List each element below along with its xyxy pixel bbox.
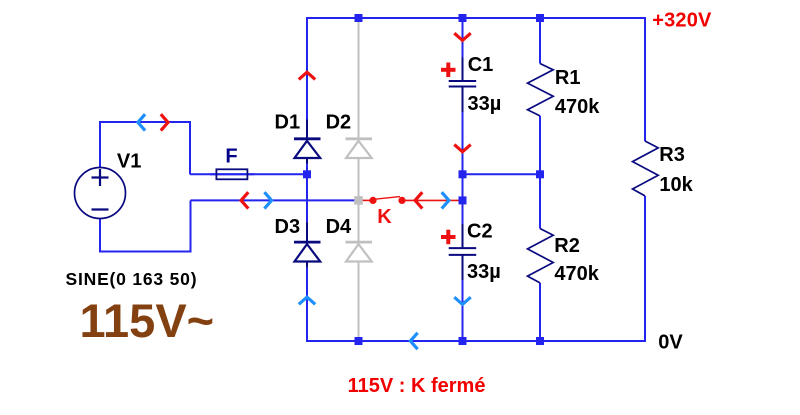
svg-text:K: K — [377, 206, 392, 228]
wire C1 top lead — [462, 17, 464, 58]
svg-text:115V : K fermé: 115V : K fermé — [348, 375, 486, 397]
current arrow red left on neutral wire — [241, 192, 248, 208]
wire bottom rail 0V — [307, 340, 645, 342]
resistor R3 — [633, 141, 659, 196]
current arrow blue right on neutral wire — [264, 192, 271, 208]
resistor R1 — [528, 64, 554, 116]
wire top rail +320V — [307, 17, 645, 19]
svg-text:470k: 470k — [554, 263, 599, 285]
node D4 bottom on rail — [355, 337, 363, 345]
fuse F — [210, 169, 254, 179]
svg-text:D4: D4 — [326, 216, 352, 238]
node D2 top on rail — [355, 14, 363, 22]
current arrow red down on C1 top lead — [454, 33, 470, 40]
current arrow blue left on V1 top wire — [138, 114, 145, 130]
wire left drop to fuse row — [189, 121, 191, 174]
wire R1 top lead — [539, 17, 541, 64]
svg-text:D1: D1 — [275, 112, 301, 134]
node junction fuse/D1/D3 — [303, 170, 311, 178]
wire fuse row to bridge node — [190, 173, 307, 175]
capacitor C2 top stub — [462, 224, 464, 248]
switch K red wire left — [362, 199, 370, 201]
current arrow blue up on D3 branch — [299, 297, 315, 304]
wire midpoint link C to R — [463, 173, 541, 175]
current arrow red up on D1 branch — [299, 72, 315, 79]
wire C1-C2 middle column — [462, 112, 464, 224]
wire D1 branch upper — [306, 17, 308, 120]
diode D3 cathode stub — [306, 262, 308, 268]
svg-text:D3: D3 — [275, 216, 301, 238]
wire neutral row to switch — [191, 199, 356, 201]
node R midpoint — [536, 170, 544, 178]
C2 polarity plus — [441, 230, 456, 245]
diode D1 anode stub — [306, 120, 308, 139]
diode D3 anode stub — [306, 222, 308, 242]
switch K red wire right — [405, 199, 459, 201]
switch K blade — [374, 197, 400, 200]
svg-text:R3: R3 — [659, 144, 685, 166]
node D2/D4 junction gray — [354, 196, 363, 205]
svg-text:SINE(0 163 50): SINE(0 163 50) — [66, 269, 198, 289]
wire V1 top horizontal — [99, 121, 190, 123]
current arrow blue right near switch — [442, 192, 449, 208]
node C midpoint — [459, 170, 467, 178]
wire R2 bottom lead — [539, 283, 541, 342]
current arrow red right on V1 top wire — [161, 114, 168, 130]
node C2 bottom on rail — [459, 337, 467, 345]
svg-text:33µ: 33µ — [467, 261, 501, 283]
diode D4 (disabled, gray) — [346, 242, 373, 261]
svg-text:R1: R1 — [555, 67, 581, 89]
node C1 top on rail — [459, 14, 467, 22]
switch K contact dot left — [369, 197, 376, 204]
C1 polarity plus — [441, 63, 456, 78]
capacitor C2 bottom stub — [462, 255, 464, 280]
svg-text:C1: C1 — [468, 54, 494, 76]
wire V1 bottom vertical — [99, 219, 101, 252]
wire R3 top lead — [644, 17, 646, 141]
wire D1-D3 middle segment — [306, 164, 308, 222]
wire V1 top vertical — [99, 122, 101, 168]
switch K contact dot right — [398, 197, 405, 204]
wire R1-R2 middle column — [539, 116, 541, 229]
svg-text:115V~: 115V~ — [80, 294, 215, 347]
svg-text:F: F — [225, 146, 237, 168]
capacitor C2 — [449, 248, 477, 255]
node R1 top on rail — [536, 14, 544, 22]
svg-text:V1: V1 — [117, 151, 141, 173]
diode D2 (disabled, gray) — [346, 139, 373, 158]
wire V1 bottom horizontal — [99, 251, 192, 253]
capacitor C1 — [449, 81, 477, 87]
capacitor C1 top stub — [462, 58, 464, 82]
current arrow blue left on bottom rail — [410, 333, 417, 349]
svg-text:C2: C2 — [467, 221, 493, 243]
svg-text:D2: D2 — [326, 112, 352, 134]
resistor R2 — [528, 229, 554, 283]
wire rise to neutral row — [190, 200, 192, 252]
wire D2 gray branch upper — [358, 18, 360, 138]
capacitor C1 bottom stub — [462, 87, 464, 113]
current arrow red down above C midpoint — [454, 145, 470, 152]
diode D1 cathode stub — [306, 158, 308, 164]
svg-text:33µ: 33µ — [468, 93, 502, 115]
node switch to C midpoint — [459, 196, 467, 204]
svg-text:R2: R2 — [554, 235, 580, 257]
wire C2 bottom lead — [462, 280, 464, 342]
svg-text:0V: 0V — [658, 332, 683, 354]
wire R3 bottom lead — [644, 196, 646, 342]
wire D4 gray lower segment — [358, 262, 360, 342]
wire D2-D4 gray middle segment — [358, 158, 360, 242]
current arrow red left near switch — [415, 192, 422, 208]
diode D1 — [294, 139, 321, 158]
node R2 bottom on rail — [536, 337, 544, 345]
wire D3 branch lower — [306, 268, 308, 342]
current arrow blue down on C2 bottom lead — [454, 297, 470, 304]
diode D3 — [294, 242, 321, 261]
svg-text:10k: 10k — [659, 174, 693, 196]
svg-text:+320V: +320V — [652, 9, 712, 31]
voltage source V1 — [75, 168, 126, 219]
svg-text:470k: 470k — [555, 96, 600, 118]
